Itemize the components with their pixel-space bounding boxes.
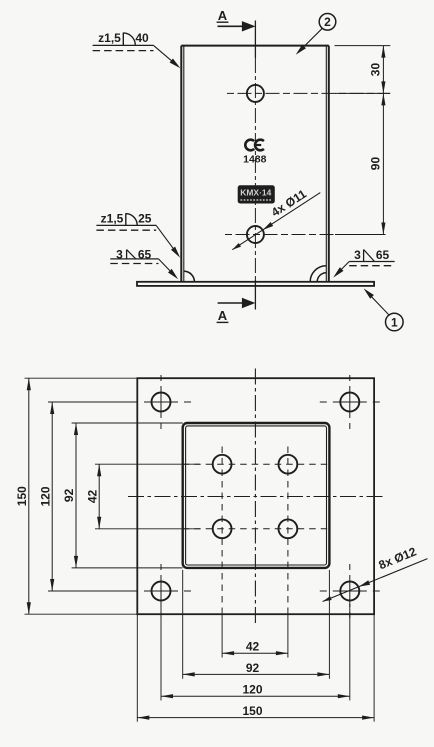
- svg-text:2: 2: [324, 15, 331, 29]
- svg-text:42: 42: [246, 640, 260, 654]
- svg-text:25: 25: [138, 212, 152, 226]
- svg-text:A: A: [218, 308, 228, 323]
- svg-text:92: 92: [62, 488, 76, 502]
- svg-text:A: A: [218, 8, 228, 23]
- svg-text:42: 42: [85, 490, 99, 504]
- svg-text:z1,5: z1,5: [98, 31, 121, 45]
- svg-text:92: 92: [246, 661, 260, 675]
- svg-text:150: 150: [15, 486, 29, 506]
- svg-text:30: 30: [368, 63, 382, 77]
- svg-text:150: 150: [242, 704, 262, 718]
- svg-text:120: 120: [242, 683, 262, 697]
- svg-text:40: 40: [135, 31, 149, 45]
- svg-text:3: 3: [354, 248, 361, 262]
- svg-text:z1,5: z1,5: [101, 212, 124, 226]
- svg-text:65: 65: [376, 248, 390, 262]
- svg-text:1: 1: [391, 315, 398, 329]
- svg-text:KMX·14: KMX·14: [240, 188, 272, 197]
- svg-text:90: 90: [368, 157, 382, 171]
- svg-text:1488: 1488: [243, 153, 267, 165]
- svg-text:120: 120: [38, 486, 52, 506]
